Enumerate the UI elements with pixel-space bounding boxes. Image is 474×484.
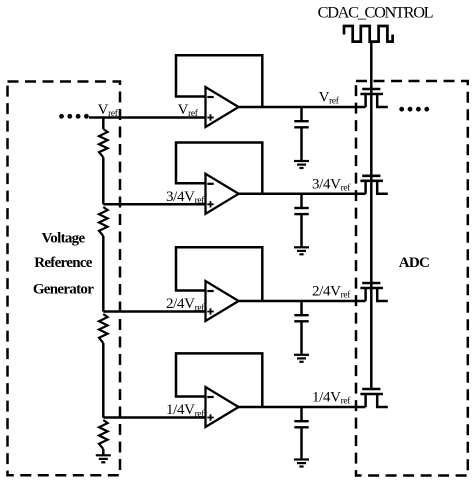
svg-text:ADC: ADC [399, 255, 429, 271]
svg-text:Generator: Generator [33, 282, 94, 298]
svg-text:Reference: Reference [34, 255, 93, 271]
svg-text:CDAC_CONTROL: CDAC_CONTROL [318, 3, 433, 22]
svg-text:Voltage: Voltage [42, 231, 86, 247]
